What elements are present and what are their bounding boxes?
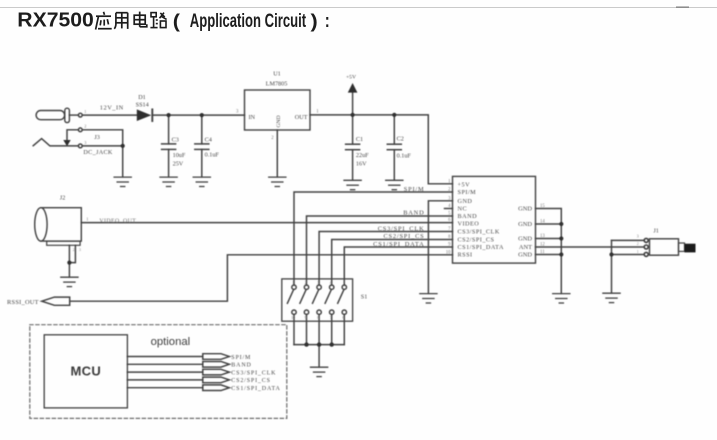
- svg-text:15: 15: [540, 204, 545, 209]
- svg-text:CS1/SPI_DATA: CS1/SPI_DATA: [373, 241, 424, 248]
- svg-text:5: 5: [343, 280, 345, 284]
- S1 switch 1: [292, 285, 296, 289]
- svg-text:25V: 25V: [173, 160, 184, 167]
- ground under J1: [603, 293, 620, 302]
- S1 switch 5: [342, 285, 346, 289]
- svg-text:ANT: ANT: [519, 244, 532, 251]
- +5V power arrow: [352, 92, 354, 115]
- svg-text:C1: C1: [356, 136, 363, 143]
- wire J1 shield down to ground: [611, 240, 613, 293]
- wire 12V_IN net: [82, 114, 137, 116]
- jack sleeve zigzag contact: [33, 139, 78, 146]
- svg-text:DC_JACK: DC_JACK: [83, 149, 112, 156]
- capacitor C1: [352, 115, 354, 144]
- svg-text:1: 1: [316, 110, 319, 115]
- svg-text:(: (: [173, 11, 181, 32]
- junction C2: [392, 113, 396, 117]
- wire U1 GND pin2: [276, 130, 278, 177]
- ground at IC pin3: [420, 294, 437, 303]
- title CJK 路: [150, 13, 166, 28]
- svg-text:GND: GND: [458, 198, 473, 205]
- svg-text:GND: GND: [276, 115, 282, 127]
- svg-text:22uF: 22uF: [356, 152, 369, 159]
- junction J1 shield: [609, 252, 613, 256]
- svg-text:3: 3: [79, 248, 81, 252]
- connector J3 tip pill: [65, 108, 70, 122]
- wire CS3/SPI_CLK net pin7: [319, 232, 452, 286]
- svg-text:CS3/SPI_CLK: CS3/SPI_CLK: [458, 229, 500, 236]
- svg-text:2: 2: [84, 124, 86, 129]
- svg-text:3: 3: [236, 110, 239, 115]
- svg-text:NC: NC: [458, 206, 468, 213]
- svg-text:J1: J1: [653, 227, 659, 234]
- wire J2 pin2 to ground: [68, 245, 70, 277]
- wire MCU line2: [127, 363, 202, 365]
- wire J3 tip to pin1: [69, 114, 78, 116]
- svg-text:0.1uF: 0.1uF: [397, 152, 412, 159]
- ground under C3: [160, 177, 177, 186]
- svg-text:J2: J2: [60, 195, 66, 202]
- pin circle J3-3: [78, 144, 82, 148]
- svg-text:GND: GND: [518, 252, 532, 259]
- title CJK 用: [114, 13, 128, 29]
- svg-text:4: 4: [330, 281, 332, 285]
- svg-text:SPI/M: SPI/M: [458, 189, 477, 196]
- capacitor C4: [201, 115, 203, 144]
- svg-text:CS1/SPI_DATA: CS1/SPI_DATA: [231, 386, 280, 392]
- svg-text:IN: IN: [249, 114, 256, 121]
- svg-text:OUT: OUT: [295, 114, 308, 121]
- svg-text:16V: 16V: [356, 160, 367, 167]
- svg-text:RX7500: RX7500: [17, 10, 93, 32]
- title bar: [0, 0, 717, 48]
- pin circle J3-1: [78, 113, 82, 117]
- svg-text:10: 10: [446, 250, 451, 255]
- svg-text:6: 6: [342, 316, 344, 320]
- arrow onto jack center pin: [63, 140, 70, 146]
- wire J3 pin2 to junction: [82, 130, 123, 146]
- svg-text:SPI/M: SPI/M: [404, 186, 425, 193]
- junction +5V / C1: [351, 113, 355, 117]
- svg-text:CS2/SPI_CS: CS2/SPI_CS: [458, 237, 495, 244]
- port arrow CS2/SPI_CS: [203, 377, 230, 383]
- svg-text:RSSI: RSSI: [458, 252, 473, 259]
- top hairline rule: [0, 7, 717, 9]
- svg-text:GND: GND: [518, 206, 532, 213]
- wire IC pin13: [536, 238, 562, 240]
- wire J3 pin3 to ground: [82, 145, 123, 147]
- svg-text:14: 14: [540, 219, 545, 224]
- diode D1 SS14: [137, 109, 152, 121]
- svg-text:Application Circuit: Application Circuit: [190, 11, 307, 32]
- capacitor C3: [168, 115, 170, 144]
- wire CS2/SPI_CS net pin8: [332, 240, 453, 286]
- svg-text:3: 3: [317, 281, 319, 285]
- J1 black tip: [685, 244, 696, 253]
- svg-text:1: 1: [86, 217, 88, 222]
- svg-text::: :: [325, 11, 330, 32]
- svg-text:VIDEO_OUT: VIDEO_OUT: [99, 218, 136, 224]
- svg-text:VIDEO: VIDEO: [458, 221, 480, 228]
- port arrow CS3/SPI_CLK: [203, 369, 230, 375]
- svg-text:CS3/SPI_CLK: CS3/SPI_CLK: [378, 225, 425, 232]
- ground under IC gnd rail: [553, 294, 570, 303]
- wire J1 shield top: [612, 239, 645, 241]
- svg-text:LM7805: LM7805: [266, 80, 288, 87]
- svg-text:7: 7: [330, 316, 332, 320]
- antenna connector J1 body: [650, 239, 679, 255]
- wire MCU line4: [127, 379, 202, 381]
- wire GND pin3: [428, 201, 452, 294]
- title CJK 电: [134, 12, 147, 27]
- junction C4 tap: [200, 113, 204, 117]
- ground under C4: [193, 177, 210, 186]
- wire IC pin11: [536, 254, 562, 256]
- svg-text:CS2/SPI_CS: CS2/SPI_CS: [231, 378, 271, 384]
- MCU box: [44, 335, 127, 408]
- pin circle J1-2: [644, 245, 648, 249]
- S1 switch 3: [317, 285, 321, 289]
- video connector J2 body: [41, 208, 82, 241]
- svg-text:CS2/SPI_CS: CS2/SPI_CS: [383, 233, 424, 240]
- wire BAND net pin5: [307, 216, 453, 285]
- svg-text:1: 1: [637, 249, 639, 254]
- svg-text:GND: GND: [518, 236, 532, 243]
- pin circle J3-2: [78, 128, 82, 132]
- S1 tiny top labels: [292, 280, 345, 285]
- svg-text:SS14: SS14: [136, 102, 149, 109]
- svg-text:+5V: +5V: [458, 181, 471, 188]
- svg-text:10uF: 10uF: [173, 152, 186, 159]
- svg-text:2: 2: [637, 241, 639, 246]
- svg-text:MCU: MCU: [71, 363, 102, 378]
- regulator U1 LM7805 box: [245, 90, 311, 130]
- S1 switch 4: [330, 285, 334, 289]
- svg-text:1: 1: [84, 109, 86, 114]
- svg-text:CS3/SPI_CLK: CS3/SPI_CLK: [231, 370, 276, 376]
- wire CS1/SPI_DATA net pin9: [344, 247, 452, 285]
- svg-text:9: 9: [305, 316, 307, 320]
- DIP switch S1 box: [282, 279, 353, 321]
- svg-text:C2: C2: [397, 136, 404, 143]
- wire RSSI net pin10 to RSSI_OUT: [70, 255, 453, 301]
- S1 tiny bottom labels: [291, 316, 344, 320]
- svg-text:3: 3: [84, 140, 86, 145]
- svg-text:12: 12: [540, 243, 545, 248]
- svg-text:BAND: BAND: [403, 210, 424, 217]
- junction S1 rail 2: [304, 342, 308, 346]
- svg-text:8: 8: [317, 316, 319, 320]
- ground under J3: [114, 177, 131, 186]
- svg-text:RSSI_OUT: RSSI_OUT: [7, 299, 39, 306]
- wire SPI/M net pin2: [294, 192, 453, 285]
- wire VIDEO net pin6 to J2: [81, 222, 452, 224]
- junction S1 rail 3: [317, 342, 321, 346]
- wire D1 cathode to U1 IN: [153, 114, 244, 116]
- svg-text:13: 13: [540, 234, 545, 239]
- wire MCU line5: [127, 387, 202, 389]
- svg-text:11: 11: [540, 250, 545, 255]
- wire ANT net pin12: [536, 246, 645, 248]
- dashed optional region: [30, 325, 287, 419]
- svg-text:CS1/SPI_DATA: CS1/SPI_DATA: [458, 244, 504, 251]
- wire U1 OUT +5V rail: [310, 115, 453, 184]
- ground under C2: [386, 180, 403, 189]
- svg-text:D1: D1: [138, 94, 146, 101]
- svg-text:S1: S1: [361, 293, 368, 300]
- wire rail to ground: [318, 345, 320, 367]
- junction J2 pins: [67, 261, 71, 265]
- pin circle J1-3: [644, 238, 648, 242]
- wire IC pin15 gnd rail: [536, 209, 562, 294]
- svg-text:12V_IN: 12V_IN: [100, 105, 124, 112]
- svg-text:0.1uF: 0.1uF: [205, 152, 220, 159]
- ground under S1: [311, 367, 328, 376]
- J2 flange: [47, 241, 80, 245]
- pin circle J1-1: [644, 252, 648, 256]
- svg-text:U1: U1: [273, 71, 281, 78]
- port arrow BAND: [203, 362, 230, 368]
- wire S1 common rail: [293, 314, 295, 344]
- svg-text:optional: optional: [151, 336, 191, 348]
- receiver module IC box: [453, 176, 536, 263]
- svg-text:C4: C4: [205, 136, 212, 143]
- wire MCU line3: [127, 371, 202, 373]
- svg-text:+5V: +5V: [346, 75, 356, 81]
- wire IC pin14: [536, 223, 562, 225]
- RSSI_OUT port flag: [42, 297, 70, 305]
- junction S1 rail 4: [330, 342, 334, 346]
- svg-text:1: 1: [292, 281, 294, 285]
- stub NC pin4: [445, 208, 453, 210]
- ground under J2: [61, 277, 78, 286]
- wire J1 shield bottom: [612, 254, 645, 256]
- wire J3 pin2 to center-pin arrow: [67, 130, 78, 140]
- S1 switch 2: [304, 285, 308, 289]
- junction C3 tap: [167, 113, 171, 117]
- capacitor C2: [393, 115, 395, 144]
- junction J3 pin2/3: [121, 144, 125, 148]
- title CJK 应: [96, 12, 112, 30]
- ground under C1: [344, 180, 361, 189]
- junction gnd rail pin11: [559, 252, 563, 256]
- svg-text:3: 3: [637, 233, 639, 238]
- svg-text:2: 2: [73, 248, 75, 252]
- svg-text:BAND: BAND: [231, 363, 251, 369]
- svg-text:): ): [311, 11, 318, 32]
- svg-text:2: 2: [271, 136, 274, 141]
- svg-text:C3: C3: [172, 136, 179, 143]
- port arrow CS1/SPI_DATA: [203, 385, 230, 391]
- svg-text:J3: J3: [94, 134, 100, 141]
- svg-text:2: 2: [305, 281, 307, 285]
- svg-text:GND: GND: [518, 221, 532, 228]
- junction gnd rail pin13: [559, 236, 563, 240]
- svg-text:BAND: BAND: [458, 213, 478, 220]
- svg-text:10: 10: [291, 316, 295, 320]
- junction gnd rail pin14: [559, 222, 563, 226]
- ground under U1: [269, 177, 286, 186]
- wire MCU line1: [127, 356, 202, 358]
- connector J3 barrel body: [36, 111, 65, 120]
- svg-text:SPI/M: SPI/M: [231, 355, 251, 361]
- wire J2 pin3: [69, 245, 75, 262]
- port arrow SPI/M: [203, 354, 230, 360]
